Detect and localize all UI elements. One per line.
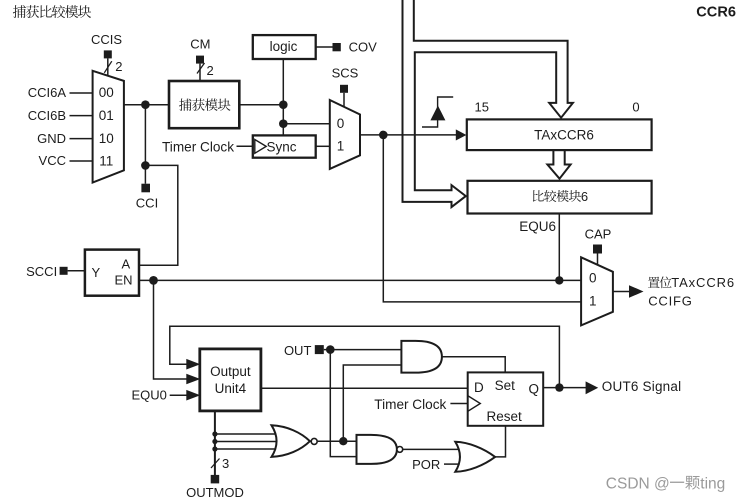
wire NOR junction up to AND input	[343, 365, 401, 441]
gate OR (reset)	[455, 442, 495, 472]
junction OUT (330.3,349.6)	[324, 349, 402, 351]
terminal CAP	[593, 245, 602, 254]
wire OUTMOD bus	[214, 411, 216, 475]
title 捕获比较模块	[13, 5, 91, 18]
junction (343.3,441.2)	[339, 437, 347, 445]
wire NAND output to OR input	[403, 448, 464, 450]
svg-text:3: 3	[222, 456, 229, 471]
svg-text:CCIFG: CCIFG	[648, 294, 692, 309]
svg-text:6: 6	[581, 189, 588, 204]
junction (153.5,280.4)	[149, 276, 158, 285]
wire Sync to SCS mux 1 input	[316, 145, 330, 147]
mux SCS selector	[330, 100, 360, 169]
flip-flop D/Set/Q/Reset	[468, 372, 544, 425]
arrowhead 置位 output	[629, 285, 644, 298]
register TAxCCR6	[467, 119, 652, 150]
svg-text:CM: CM	[190, 36, 210, 51]
bus width slash 3 (OUTMOD)	[211, 459, 220, 469]
wire capture signal to CAP mux 1 input	[383, 135, 581, 302]
wire EN junction down to Output Unit input 2	[154, 280, 187, 379]
wire AND output to Set	[442, 357, 505, 373]
wire OUT down to NAND lower input	[330, 350, 356, 457]
wire NOR output to NAND input	[318, 440, 357, 442]
wire POR to OR	[444, 463, 460, 465]
wire logic to COV	[316, 46, 333, 48]
terminal COV	[333, 43, 341, 51]
junction (383,135)	[379, 131, 388, 140]
svg-text:00: 00	[99, 85, 114, 100]
svg-text:1: 1	[589, 294, 597, 309]
junction (145,165)	[141, 161, 150, 170]
compare module 比较模块6	[468, 181, 652, 214]
svg-text:11: 11	[99, 153, 113, 168]
junction (559.3,280.4)	[555, 276, 563, 284]
wire mux output to capture module	[124, 104, 169, 106]
svg-text:VCC: VCC	[39, 153, 66, 168]
gate NOR (OUTMOD decode)	[272, 425, 310, 457]
capture module 捕获模块	[169, 81, 239, 128]
bus width slash 2 (CCIS)	[104, 61, 112, 73]
terminal SCCI	[60, 267, 68, 275]
wire GND	[70, 138, 93, 140]
svg-text:CCI6A: CCI6A	[28, 85, 67, 100]
logic box	[253, 35, 316, 59]
wire Output Unit to D	[261, 387, 468, 389]
wire EQU6	[558, 214, 560, 281]
Sync box	[253, 135, 316, 157]
wire SCCI to Y	[68, 270, 85, 272]
wire CCI branch down	[144, 105, 146, 184]
wire CCI junction to SCCI A input	[139, 165, 178, 265]
svg-text:Unit4: Unit4	[215, 381, 247, 396]
wires OUTMOD to NOR inputs	[215, 433, 284, 435]
arrowhead OUT6	[586, 381, 599, 394]
label 置位TAxCCR6 CCIFG	[648, 275, 735, 308]
mux CCIS input selector	[93, 71, 124, 183]
svg-text:CCIS: CCIS	[91, 32, 122, 47]
wire Q feedback to Output Unit input 1	[170, 326, 560, 387]
svg-text:Q: Q	[529, 381, 540, 396]
svg-text:0: 0	[337, 116, 345, 131]
svg-text:OUT: OUT	[284, 343, 312, 358]
gate AND (OUT hold)	[401, 341, 442, 373]
wire capture module output	[239, 104, 283, 106]
svg-text:2: 2	[115, 59, 122, 74]
svg-text:Y: Y	[92, 265, 101, 280]
terminal SCS	[340, 85, 348, 93]
gate NAND	[357, 435, 397, 464]
svg-text:EQU6: EQU6	[519, 219, 556, 234]
svg-text:Set: Set	[495, 378, 516, 393]
terminal OUT	[315, 345, 324, 354]
bus: hollow arrow TAxCCR6 to compare module	[547, 151, 570, 179]
svg-text:CSDN @: CSDN @	[606, 475, 670, 492]
wire CCI6A	[70, 92, 93, 94]
input arrowheads Output Unit	[186, 359, 200, 370]
svg-text:0: 0	[589, 270, 597, 285]
bus: timer data hollow bus with arrow into TAxCCR6 and arrow into compare module	[403, 0, 573, 207]
wire EQU0	[170, 394, 188, 396]
svg-text:Output: Output	[210, 364, 251, 379]
svg-text:Sync: Sync	[267, 139, 297, 154]
wire SCS mux output to TAxCCR6	[360, 134, 457, 136]
wire Timer Clock to clock pin	[450, 403, 467, 405]
terminal CCIS	[104, 50, 112, 58]
svg-text:POR: POR	[412, 457, 440, 472]
svg-text:TAxCCR6: TAxCCR6	[671, 275, 735, 290]
svg-text:logic: logic	[270, 39, 298, 54]
svg-text:15: 15	[475, 100, 489, 115]
watermark CSDN	[606, 475, 726, 492]
box Output Unit4	[200, 349, 261, 411]
svg-text:D: D	[474, 380, 484, 395]
terminal CM	[196, 56, 204, 64]
wire CAP mux output	[613, 291, 630, 293]
svg-text:GND: GND	[37, 131, 66, 146]
wire OR output to Reset	[495, 426, 505, 457]
svg-text:EN: EN	[115, 272, 133, 287]
svg-text:Timer Clock: Timer Clock	[162, 140, 234, 155]
svg-text:0: 0	[632, 100, 639, 115]
wire logic down through junctions to Sync	[282, 59, 284, 135]
wire Timer Clock to Sync	[237, 145, 253, 147]
svg-text:A: A	[122, 257, 131, 272]
junction dots OUTMOD	[212, 431, 217, 436]
arrowhead into TAxCCR6	[456, 129, 467, 140]
svg-text:Timer Clock: Timer Clock	[374, 397, 446, 412]
wire EN output to CAP mux 0 input	[139, 279, 581, 281]
svg-text:TAxCCR6: TAxCCR6	[534, 128, 594, 143]
svg-text:CCI: CCI	[136, 196, 158, 211]
svg-text:CCI6B: CCI6B	[28, 108, 66, 123]
wire VCC	[70, 160, 93, 162]
wire CCI6B	[70, 115, 93, 117]
svg-text:CCR6: CCR6	[696, 5, 736, 21]
svg-text:2: 2	[207, 63, 214, 78]
terminal CCI	[141, 184, 150, 193]
junction (283,105)	[279, 100, 288, 109]
svg-text:01: 01	[99, 108, 114, 123]
junction (283,124)	[279, 119, 288, 128]
latch SCCI box	[85, 250, 139, 296]
svg-text:Reset: Reset	[487, 409, 523, 424]
clock triangle	[468, 396, 481, 412]
bus width slash 2 (CM)	[197, 63, 205, 74]
svg-text:10: 10	[99, 131, 114, 146]
svg-text:OUTMOD: OUTMOD	[186, 485, 244, 500]
wire to SCS mux 0 input	[283, 123, 330, 125]
svg-text:ting: ting	[700, 475, 725, 492]
svg-text:EQU0: EQU0	[131, 387, 166, 402]
svg-text:SCCI: SCCI	[26, 264, 57, 279]
svg-text:COV: COV	[349, 39, 378, 54]
mux CAP selector	[581, 257, 613, 325]
edge-trigger symbol	[422, 97, 453, 127]
junction (559.4,387.6)	[555, 383, 563, 391]
svg-text:1: 1	[337, 139, 345, 154]
junction (145,105)	[141, 100, 150, 109]
svg-text:SCS: SCS	[332, 66, 359, 81]
svg-text:OUT6 Signal: OUT6 Signal	[602, 379, 681, 394]
terminal OUTMOD	[211, 475, 220, 484]
svg-text:CAP: CAP	[585, 227, 612, 242]
wire Q to OUT6	[543, 387, 586, 389]
